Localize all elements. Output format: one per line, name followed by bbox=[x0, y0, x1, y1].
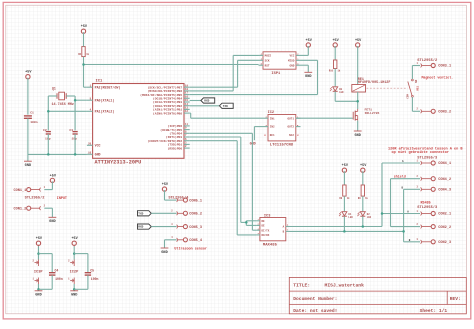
wire RESET net bbox=[84, 32, 87, 87]
crystal Q1 bbox=[52, 87, 74, 108]
svg-text:TXD: TXD bbox=[138, 212, 143, 215]
svg-text:SCK: SCK bbox=[265, 59, 270, 62]
node RXD flag bbox=[201, 98, 215, 103]
node 120R note bbox=[388, 147, 463, 156]
svg-text:CON2_3: CON2_3 bbox=[438, 241, 451, 245]
wire ISP GND bbox=[301, 65, 309, 72]
connector CON2_1 bbox=[417, 210, 452, 217]
node label A (CON4_1) bbox=[402, 160, 404, 163]
svg-text:(AIN0/PCINT0)PB0: (AIN0/PCINT0)PB0 bbox=[153, 111, 182, 115]
connector CON4_3 bbox=[417, 186, 452, 193]
wire ISP MOSI to PB6 bbox=[190, 55, 259, 91]
connector CON4_1 bbox=[417, 159, 452, 166]
ground (CON5) bbox=[161, 248, 169, 255]
svg-text:+5V: +5V bbox=[71, 237, 78, 241]
resistor R9 bbox=[358, 185, 369, 200]
junction rail C2 bbox=[47, 153, 50, 156]
svg-text:+5V: +5V bbox=[332, 39, 339, 43]
resistor R8 bbox=[339, 185, 350, 200]
power +5V (RE1) bbox=[355, 39, 362, 48]
switch RE1 contact bbox=[406, 79, 419, 99]
wire D3 to relay node bbox=[335, 91, 358, 101]
ground (C1) bbox=[24, 161, 32, 168]
connector CON1_2 bbox=[14, 205, 46, 212]
svg-text:+5V: +5V bbox=[306, 39, 313, 43]
svg-text:100n: 100n bbox=[30, 120, 38, 124]
svg-text:100n: 100n bbox=[91, 277, 99, 281]
wire ISP VCC bbox=[301, 46, 309, 55]
svg-text:C2: C2 bbox=[43, 128, 47, 132]
svg-text:CON5_2: CON5_2 bbox=[189, 213, 202, 217]
connector CON3_2 bbox=[417, 108, 452, 115]
svg-text:LED: LED bbox=[348, 216, 353, 219]
svg-text:MOSI: MOSI bbox=[265, 55, 272, 58]
svg-text:Document Number:: Document Number: bbox=[293, 296, 337, 302]
wire CON1_2 to gnd bbox=[44, 208, 52, 217]
resistor R6 bbox=[78, 47, 89, 57]
svg-text:GND: GND bbox=[71, 294, 78, 298]
power +5V (C1) bbox=[25, 71, 32, 80]
wire switch to CON3_1 bbox=[412, 66, 420, 80]
svg-text:RE1: RE1 bbox=[416, 86, 419, 91]
svg-text:op niet gebruikte connector: op niet gebruikte connector bbox=[392, 150, 449, 155]
connector ISP1 bbox=[259, 52, 301, 76]
wire ISP SCK to PB7 bbox=[190, 60, 259, 87]
svg-text:IN1: IN1 bbox=[270, 117, 275, 120]
wire D2 to A bbox=[362, 216, 364, 226]
wire relay mech link (dashed) bbox=[367, 87, 408, 89]
connector CON5_2 bbox=[171, 210, 202, 217]
svg-text:15: 15 bbox=[185, 99, 189, 102]
connector CON2_2 bbox=[417, 223, 452, 230]
svg-text:CON2_1: CON2_1 bbox=[438, 213, 451, 217]
junction XTAL2 bbox=[47, 110, 50, 113]
power +5V (CON5) bbox=[162, 183, 169, 192]
svg-text:LED: LED bbox=[367, 216, 372, 219]
connector CON2_3 bbox=[417, 238, 452, 245]
svg-text:TITLE:: TITLE: bbox=[293, 282, 310, 288]
svg-text:+5V: +5V bbox=[50, 174, 57, 178]
svg-text:19: 19 bbox=[185, 84, 189, 87]
svg-text:R10: R10 bbox=[329, 70, 334, 73]
node label B (CON4_3) bbox=[402, 187, 404, 190]
wire net shield bbox=[391, 179, 421, 227]
wire PD2 to RO bbox=[190, 141, 257, 235]
svg-text:Ultrasoon sensor: Ultrasoon sensor bbox=[174, 246, 207, 251]
svg-text:Magneet ventiel.: Magneet ventiel. bbox=[422, 75, 454, 79]
node STL2955/2 label (CON1) bbox=[25, 195, 45, 200]
svg-text:CON3_1: CON3_1 bbox=[438, 65, 451, 69]
wire CON5_4 to gnd bbox=[165, 240, 177, 248]
svg-text:IC3: IC3 bbox=[264, 214, 270, 218]
node Ultrasoon sensor label bbox=[174, 246, 207, 251]
svg-text:+5V: +5V bbox=[36, 237, 43, 241]
junction RESET/RST bbox=[82, 63, 85, 66]
node STL2955/2 label (CON3) bbox=[417, 58, 437, 63]
svg-text:CON1_2: CON1_2 bbox=[14, 207, 27, 211]
svg-text:shield: shield bbox=[394, 175, 406, 179]
svg-text:PA1(XTAL2): PA1(XTAL2) bbox=[95, 110, 115, 114]
svg-text:IC1: IC1 bbox=[96, 80, 104, 84]
wire to TXD flag bbox=[190, 105, 220, 107]
svg-text:ISP1: ISP1 bbox=[271, 72, 281, 76]
svg-text:MAX485: MAX485 bbox=[263, 244, 278, 248]
svg-text:OUT2: OUT2 bbox=[288, 126, 295, 129]
wire to RXD flag bbox=[190, 100, 201, 102]
svg-text:RS485: RS485 bbox=[421, 201, 431, 205]
junction A-D2 bbox=[362, 225, 365, 228]
transistor FET1 IRLL2705 bbox=[352, 108, 379, 121]
junction B-CON2_3 bbox=[402, 230, 405, 233]
svg-text:C3: C3 bbox=[69, 128, 73, 132]
svg-text:REV:: REV: bbox=[450, 296, 461, 302]
svg-text:GND: GND bbox=[49, 220, 56, 224]
junction relay/LED/FET bbox=[356, 100, 359, 103]
node RS485 label bbox=[421, 201, 431, 205]
svg-text:CON4_3: CON4_3 bbox=[438, 189, 451, 193]
power unit IC3P with capacitor C4 bbox=[32, 237, 62, 290]
wire C1 to gnd rail bbox=[27, 118, 29, 161]
svg-text:NC1: NC1 bbox=[270, 134, 275, 137]
svg-text:GND: GND bbox=[305, 75, 312, 79]
wire +5V to C1 bbox=[27, 78, 29, 115]
svg-text:IC2P: IC2P bbox=[70, 271, 79, 275]
junction B-D1 bbox=[343, 230, 346, 233]
svg-text:CON4_1: CON4_1 bbox=[438, 162, 451, 166]
diode D3 LED bbox=[330, 87, 344, 94]
svg-text:STL2955/2: STL2955/2 bbox=[417, 58, 437, 63]
wire R8 to D1 bbox=[343, 196, 345, 211]
node shield label bbox=[394, 175, 406, 179]
svg-text:+5V: +5V bbox=[355, 39, 362, 43]
svg-text:17: 17 bbox=[185, 92, 189, 95]
power +5V (R9) bbox=[360, 164, 367, 173]
wire PD4 to DI bbox=[190, 133, 257, 230]
svg-text:C1: C1 bbox=[30, 110, 34, 114]
svg-text:14: 14 bbox=[185, 103, 189, 106]
svg-text:TXD: TXD bbox=[223, 105, 228, 108]
svg-text:18p: 18p bbox=[71, 137, 77, 141]
ground (ISP1) bbox=[304, 72, 312, 79]
ground (FET1) bbox=[354, 131, 362, 138]
connector CON4_2 bbox=[417, 175, 452, 182]
svg-text:CON4_2: CON4_2 bbox=[438, 178, 451, 182]
svg-text:STL2955/2: STL2955/2 bbox=[25, 195, 45, 200]
svg-text:CON2_2: CON2_2 bbox=[438, 226, 451, 230]
svg-text:OUT1: OUT1 bbox=[288, 117, 295, 120]
node label B (CON2_3) bbox=[409, 239, 411, 242]
op-amp U1 main MCU IC1 ATTINY2313-20PU bbox=[87, 80, 190, 166]
node STL2955/3 label (CON4) bbox=[417, 155, 438, 160]
svg-text:CON3_2: CON3_2 bbox=[438, 111, 451, 115]
diode D2 LED bbox=[357, 212, 371, 219]
wire IN2 to GND label bbox=[254, 127, 263, 141]
svg-text:NO: NO bbox=[415, 79, 418, 83]
svg-text:PA2(RESET/dW): PA2(RESET/dW) bbox=[95, 85, 121, 89]
svg-text:Sheet: 1/1: Sheet: 1/1 bbox=[420, 308, 448, 314]
connector CON1_1 bbox=[14, 186, 46, 193]
capacitor C1 bbox=[24, 110, 38, 124]
wire gnd rail bbox=[28, 134, 87, 154]
svg-text:RXD: RXD bbox=[138, 226, 143, 229]
svg-text:GND: GND bbox=[25, 164, 32, 168]
svg-text:+5V: +5V bbox=[162, 183, 169, 187]
svg-text:VCC: VCC bbox=[95, 144, 101, 148]
svg-text:IC2: IC2 bbox=[268, 111, 274, 115]
svg-text:NC2: NC2 bbox=[289, 134, 294, 137]
relay RE1 coil bbox=[352, 78, 391, 92]
svg-text:10: 10 bbox=[88, 151, 92, 154]
capacitor C3 bbox=[69, 128, 77, 141]
wire D1 to B bbox=[343, 216, 345, 231]
svg-text:HF49FD/005-1H12F: HF49FD/005-1H12F bbox=[358, 80, 391, 85]
svg-text:DI/TX: DI/TX bbox=[262, 228, 270, 232]
node TXD flag (CON5) bbox=[138, 211, 152, 216]
svg-text:CON5_4: CON5_4 bbox=[189, 239, 203, 243]
connector CON5_1 bbox=[171, 197, 202, 204]
wire +5V to R8 bbox=[343, 171, 345, 185]
node STL2955/4 label bbox=[168, 195, 189, 200]
ground (IC3P) bbox=[35, 291, 43, 298]
ground (CON1) bbox=[49, 217, 57, 224]
svg-text:RST: RST bbox=[265, 64, 270, 67]
svg-text:VCC: VCC bbox=[290, 55, 295, 58]
wire CON5_2 bbox=[151, 212, 176, 214]
svg-text:COM: COM bbox=[406, 94, 409, 99]
wire R10 to D3 bbox=[334, 69, 336, 87]
wire +5V to RE1 coil bbox=[357, 46, 359, 85]
svg-text:CON5_3: CON5_3 bbox=[189, 226, 202, 230]
svg-text:STL2955/3: STL2955/3 bbox=[417, 155, 438, 160]
svg-text:MISJ_watertank: MISJ_watertank bbox=[325, 282, 365, 288]
op-amp U2 driver IC2 LTC1157CN8 bbox=[264, 111, 301, 147]
wire ISP MISO to PB5 bbox=[190, 60, 318, 94]
junction A-CON2_1 bbox=[381, 212, 384, 215]
svg-text:PA0(XTAL1): PA0(XTAL1) bbox=[95, 98, 115, 102]
power +5V (R8) bbox=[342, 164, 349, 173]
svg-text:IN2: IN2 bbox=[270, 126, 275, 129]
svg-text:GND: GND bbox=[354, 134, 361, 138]
wire OUT1 to FET gate bbox=[296, 117, 352, 119]
svg-text:11: 11 bbox=[185, 123, 189, 126]
svg-text:+5V: +5V bbox=[81, 25, 88, 29]
svg-text:ATTINY2313-20PU: ATTINY2313-20PU bbox=[95, 160, 142, 166]
wire CON1_1 to +5V bbox=[44, 181, 52, 189]
svg-text:DE: DE bbox=[262, 225, 266, 228]
wire RE1 coil to FET drain bbox=[357, 92, 359, 109]
svg-text:CON5_1: CON5_1 bbox=[189, 199, 202, 203]
svg-text:12: 12 bbox=[185, 110, 189, 113]
wire RST to ISP1 bbox=[84, 64, 259, 66]
wire CON5_1 to +5V bbox=[165, 190, 177, 200]
wire net B bbox=[290, 189, 421, 242]
svg-text:13: 13 bbox=[185, 107, 189, 110]
svg-text:+5V: +5V bbox=[360, 164, 367, 168]
svg-text:+5V: +5V bbox=[25, 71, 32, 75]
wire PD3 to RE/DE bbox=[190, 137, 257, 225]
power +5V (R6) bbox=[81, 25, 88, 34]
op-amp U3 transceiver IC3 MAX485 bbox=[256, 214, 289, 247]
wire XTAL2 net bbox=[48, 96, 87, 130]
wire +5V to R9 bbox=[362, 171, 364, 185]
junction rail C3 bbox=[74, 153, 77, 156]
wire net A bbox=[290, 163, 421, 227]
diode D1 LED bbox=[339, 212, 353, 219]
node GND label (IC2 IN2) bbox=[250, 143, 256, 147]
svg-text:+5V: +5V bbox=[342, 164, 349, 168]
svg-text:RXD: RXD bbox=[204, 100, 209, 103]
junction RE/DE bbox=[245, 221, 248, 224]
node INPUT label bbox=[57, 197, 67, 201]
svg-text:STL2955/3: STL2955/3 bbox=[417, 205, 438, 210]
svg-text:C4: C4 bbox=[55, 269, 59, 273]
junction XTAL1 bbox=[74, 99, 77, 102]
svg-text:CON1_1: CON1_1 bbox=[14, 189, 27, 193]
power +5V (CON1) bbox=[50, 174, 57, 183]
power unit IC2P with capacitor C5 bbox=[68, 237, 98, 290]
svg-text:18: 18 bbox=[185, 88, 189, 91]
node Magneet ventiel label bbox=[422, 75, 454, 79]
svg-text:14.7456 MHz: 14.7456 MHz bbox=[52, 103, 74, 107]
svg-text:GND: GND bbox=[161, 251, 168, 255]
svg-text:LED: LED bbox=[339, 91, 344, 94]
connector CON5_4 bbox=[171, 236, 203, 243]
svg-text:GND: GND bbox=[290, 64, 295, 67]
node STL2955/3 label (CON2) bbox=[417, 205, 438, 210]
wire R9 to D2 bbox=[362, 196, 364, 211]
svg-text:GND: GND bbox=[35, 294, 42, 298]
svg-text:20: 20 bbox=[88, 142, 92, 145]
svg-text:GND: GND bbox=[95, 153, 101, 157]
wire switch to CON3_2 bbox=[412, 97, 420, 111]
svg-text:IC3P: IC3P bbox=[34, 271, 43, 275]
svg-text:16: 16 bbox=[185, 95, 189, 98]
wire CON5_3 bbox=[151, 226, 176, 228]
wire +5V to R10 bbox=[334, 46, 336, 60]
wire XTAL1 net bbox=[66, 96, 87, 130]
svg-text:Date: not saved!: Date: not saved! bbox=[293, 308, 337, 314]
node RXD flag (CON5) bbox=[138, 224, 152, 229]
wire IN1 from IC1 bbox=[190, 113, 264, 118]
svg-text:MISO: MISO bbox=[288, 59, 295, 62]
svg-text:(RXD)PD0: (RXD)PD0 bbox=[168, 146, 183, 150]
svg-text:100n: 100n bbox=[55, 277, 63, 281]
svg-text:Q1: Q1 bbox=[52, 87, 56, 91]
svg-text:RE: RE bbox=[262, 220, 266, 223]
connector CON5_3 bbox=[171, 223, 202, 230]
resistor R10 bbox=[329, 60, 341, 73]
capacitor C2 bbox=[43, 128, 51, 141]
svg-text:RO/RX: RO/RX bbox=[262, 233, 270, 237]
node TXD flag bbox=[219, 103, 233, 108]
title block bbox=[289, 277, 466, 314]
power +5V (R10) bbox=[332, 39, 339, 48]
node label A (CON2_1) bbox=[407, 211, 409, 214]
connector CON3_1 bbox=[417, 62, 452, 69]
power +5V (ISP1) bbox=[306, 39, 313, 48]
wire FET source to gnd bbox=[357, 121, 359, 131]
svg-text:C5: C5 bbox=[90, 269, 94, 273]
ground (IC2P) bbox=[70, 291, 78, 298]
svg-text:LTC1157CN8: LTC1157CN8 bbox=[270, 143, 294, 147]
svg-text:INPUT: INPUT bbox=[57, 197, 67, 201]
svg-text:IRLL2705: IRLL2705 bbox=[365, 111, 380, 115]
